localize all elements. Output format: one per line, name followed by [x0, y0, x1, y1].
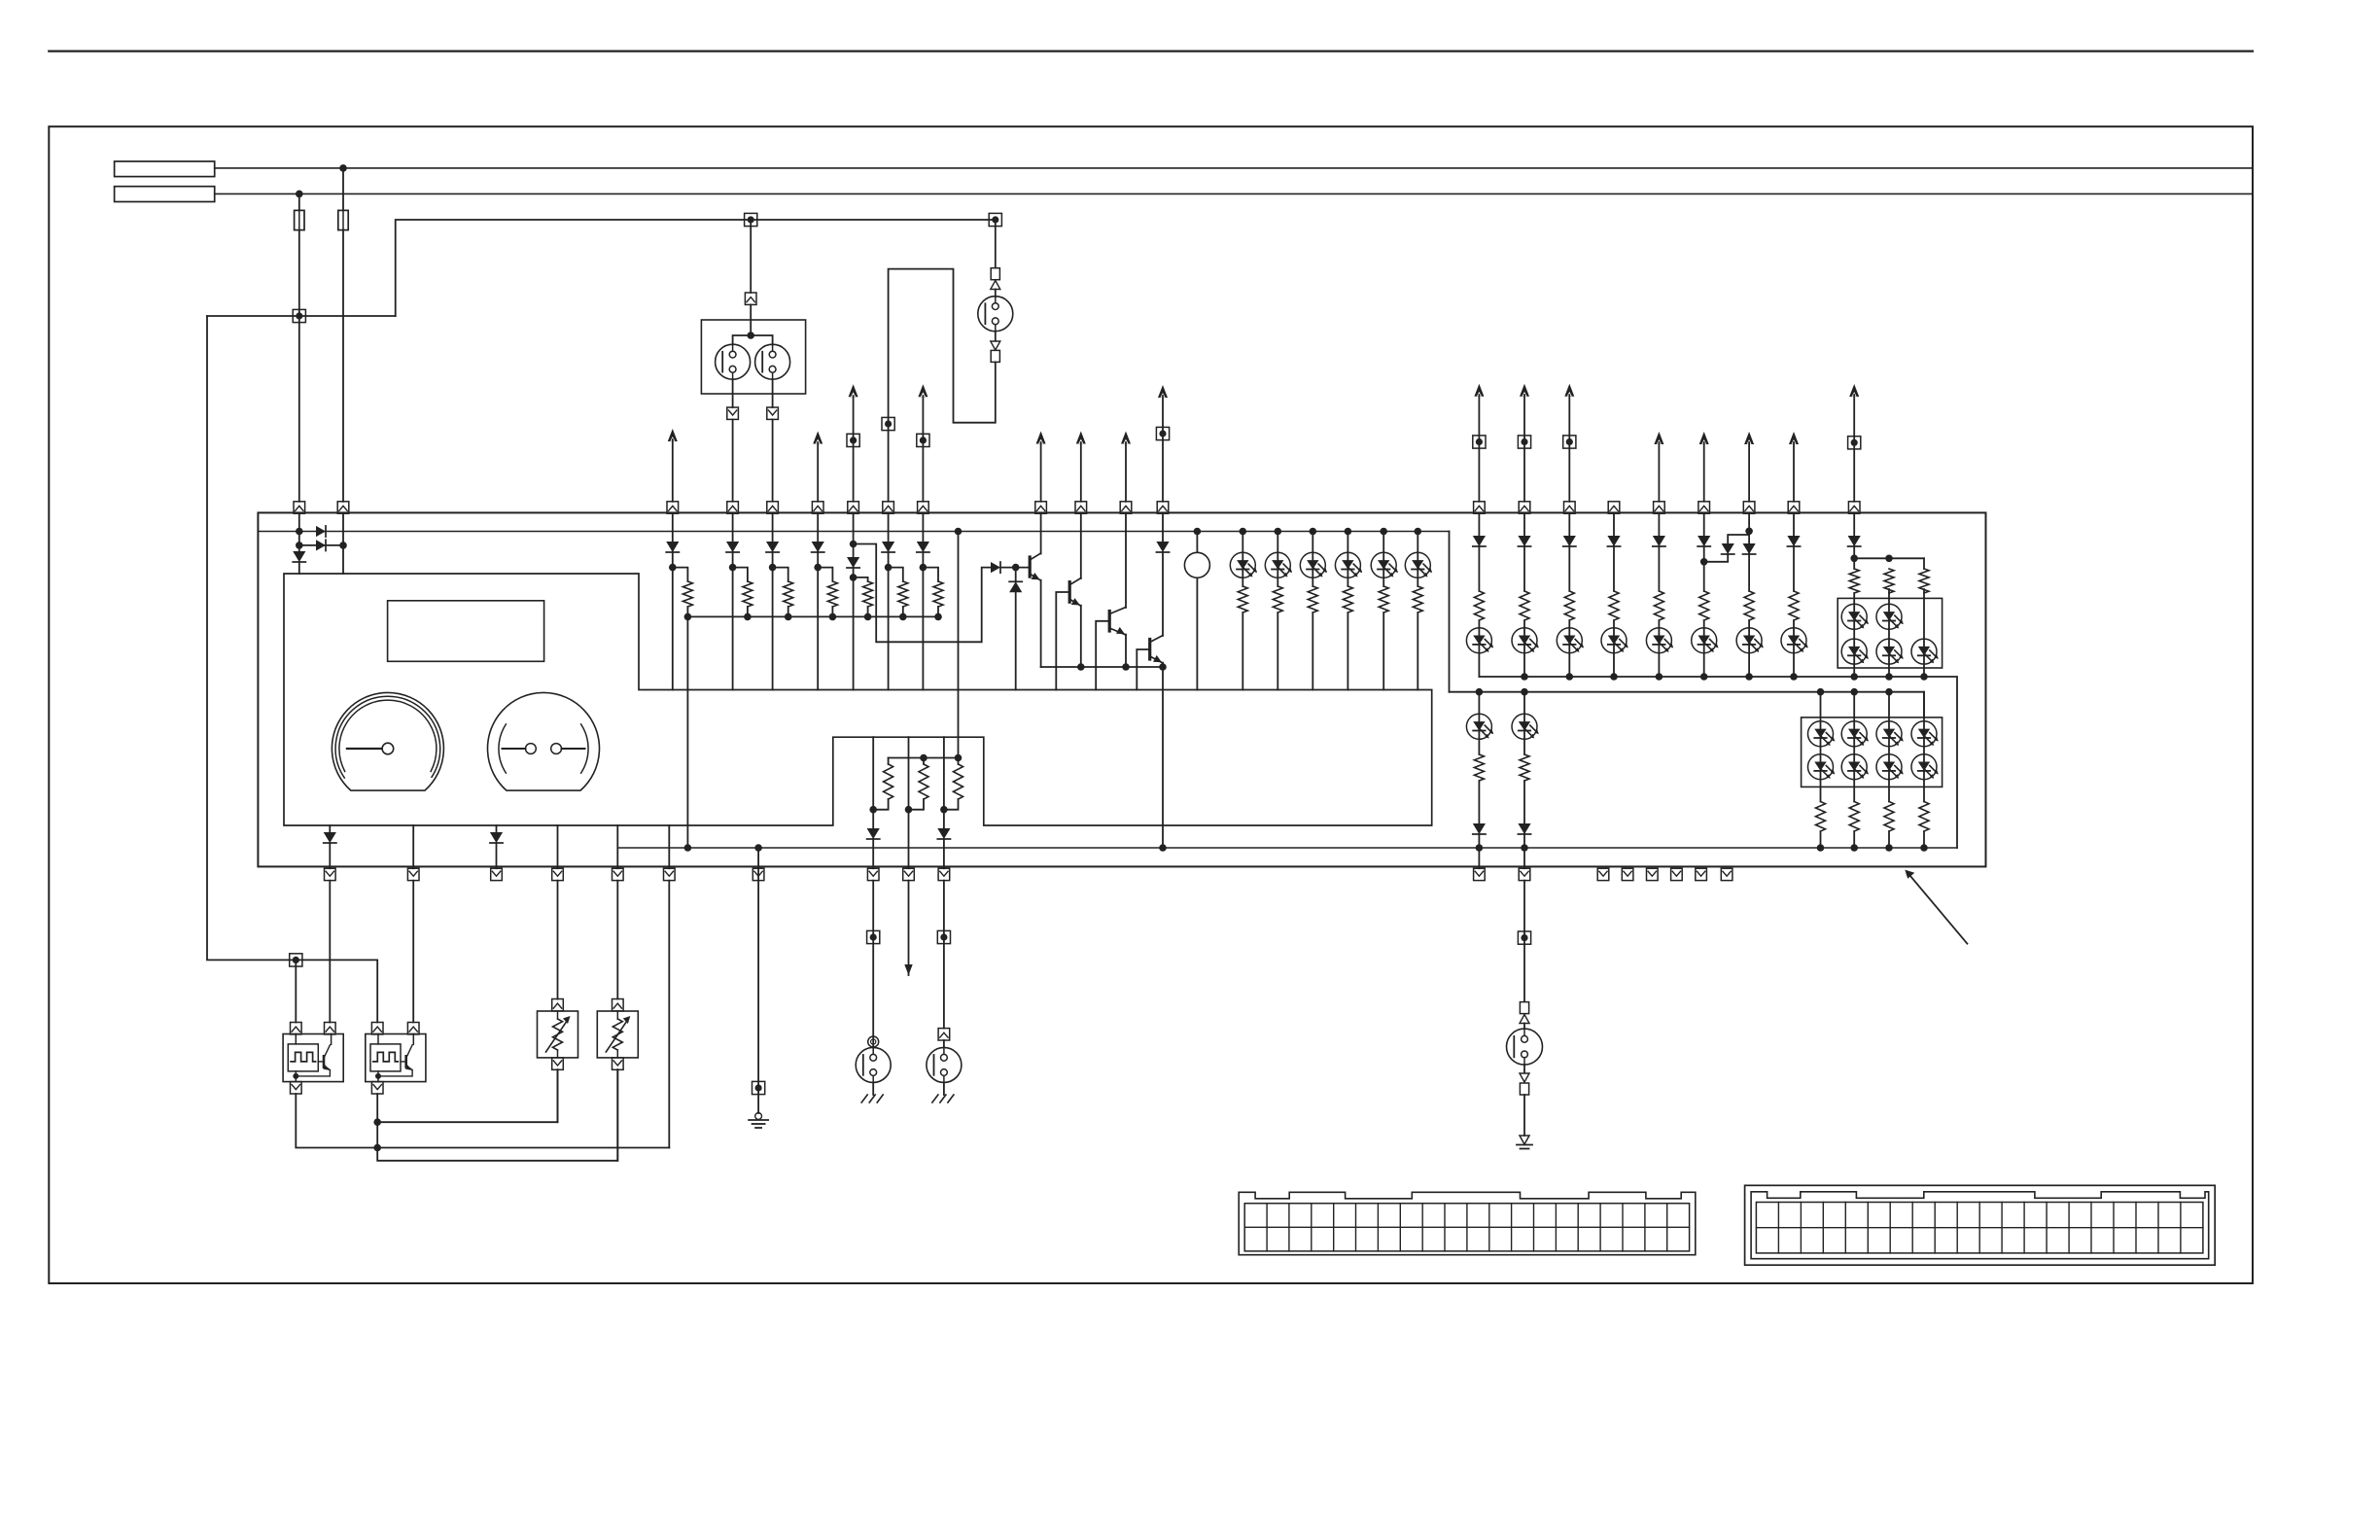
wire lamp1 return — [732, 379, 734, 407]
node resbus-7 — [934, 613, 942, 621]
LED D15 — [1265, 552, 1292, 577]
node blk2-3 — [1920, 844, 1928, 852]
pin connector B14 — [1622, 868, 1633, 880]
callout arrow — [1905, 870, 1967, 944]
resistor R25 — [1847, 569, 1861, 593]
resistor R23 — [1787, 591, 1801, 620]
ground G3 (chassis) — [932, 1095, 954, 1102]
node link-308 — [296, 542, 303, 549]
resistor R8 — [1236, 586, 1249, 612]
wire Q4 collector feed — [1162, 513, 1164, 542]
connector T16 — [1518, 931, 1530, 944]
wire twin diode out — [1704, 554, 1729, 562]
node busA-1753 — [1700, 673, 1708, 681]
LED D31 — [1466, 628, 1493, 653]
wire Q2 base — [1056, 592, 1069, 690]
resistor R32 — [1882, 802, 1896, 832]
node e-Q2 — [1077, 663, 1085, 671]
diode D26 — [1563, 536, 1576, 546]
node link-353 — [339, 542, 347, 549]
off-page arrow A15 — [1789, 432, 1799, 502]
pin connector B16 — [1671, 868, 1683, 880]
wire res link 1 — [673, 568, 688, 581]
wire rcol 1799 — [1748, 513, 1750, 677]
pin connector P17 — [1608, 502, 1620, 513]
pin connector P22 — [1848, 502, 1860, 513]
pin connector P5 — [767, 502, 779, 513]
resistor R27 — [1917, 558, 1931, 593]
wire bulb4 drop — [872, 881, 874, 1048]
diode D39 — [1743, 543, 1756, 554]
node busA-1907 — [1850, 673, 1858, 681]
node resbus-6 — [899, 613, 907, 621]
bulb L5 — [927, 1047, 962, 1082]
LED D40 — [1736, 628, 1764, 653]
wire drop 339 — [329, 825, 331, 832]
meter internal bus — [258, 531, 1449, 533]
resistor R2 — [741, 581, 754, 607]
connector TH1b — [552, 1058, 564, 1069]
node mid-1521 — [1476, 844, 1484, 852]
wire twin diode bracket — [1728, 535, 1749, 543]
contact arrow S2 — [991, 281, 1000, 290]
resistor R19 — [1562, 591, 1576, 620]
wire lamp1 to cluster — [732, 419, 734, 501]
wire column 4 — [817, 513, 819, 689]
LED D33 — [1557, 628, 1584, 653]
wire bulb5 lead — [943, 1040, 945, 1048]
wire illumination riser — [396, 220, 996, 316]
wire fuse2 out — [342, 230, 344, 502]
connector C5 — [745, 293, 756, 304]
node busB-1907 — [1850, 688, 1858, 696]
off-page arrow A10 — [1520, 384, 1529, 502]
LED D47 — [1466, 714, 1493, 739]
wire led col 5 — [1382, 532, 1384, 690]
off-page arrow A11 — [1564, 384, 1574, 502]
node Q1 base — [1012, 564, 1020, 572]
wire res tail 7 — [937, 607, 939, 616]
diode D21 — [937, 828, 950, 839]
off-page arrow A8 — [1158, 385, 1168, 502]
connector T11 — [1563, 436, 1576, 448]
node busA-1568 — [1521, 673, 1528, 681]
off-page arrow A2 — [813, 432, 822, 502]
resistor R17 — [1472, 591, 1486, 620]
wire res tail 1 — [686, 607, 688, 616]
wire rcol 1660 — [1613, 513, 1615, 677]
connector S2-425 — [407, 1023, 419, 1034]
pin connector B13 — [1597, 868, 1609, 880]
wire column 7 — [922, 513, 924, 689]
pin connector B9 — [903, 868, 915, 880]
wire bus to LED section — [1449, 532, 1451, 692]
wire column 2 — [732, 513, 734, 689]
wire Q1 emitter — [1040, 580, 1042, 667]
wire gauge col3 out — [943, 839, 945, 868]
node bump-985 — [955, 754, 962, 762]
terminal sleeve S1 — [991, 268, 999, 280]
pin connector B4 — [552, 868, 564, 880]
connector TH2b — [612, 1058, 624, 1069]
resistor R12 — [1377, 586, 1390, 612]
transistor Q1 — [1030, 553, 1040, 580]
diode D24 — [1473, 536, 1486, 546]
diode D13 — [1156, 542, 1169, 552]
connector T10 — [1518, 436, 1530, 448]
off-page arrow A5 — [1036, 432, 1046, 502]
gauge panel outline — [284, 574, 1432, 825]
resistor R33 — [1917, 802, 1931, 832]
speed sensor SS1 — [283, 1034, 343, 1082]
diode D28 — [1653, 536, 1665, 546]
transistor Q3 — [1109, 608, 1126, 636]
wire cluster return — [668, 881, 670, 1148]
pin connector B12 — [1519, 868, 1530, 880]
diode D6 — [766, 542, 779, 552]
diode D5 — [726, 542, 739, 552]
connector C8 — [938, 1029, 950, 1040]
resistor R9 — [1271, 586, 1284, 612]
pin connector P10 — [1035, 502, 1047, 513]
node mid-1568 — [1521, 844, 1528, 852]
wire Q4 collector — [1162, 552, 1164, 636]
pin connector B18 — [1721, 868, 1732, 880]
diagram border frame — [49, 126, 2253, 1283]
wire res link 4 — [818, 568, 832, 581]
wire illumination to sensors — [207, 316, 377, 1023]
wire blk2 col 1 — [1820, 692, 1822, 848]
pin connector B8 — [867, 868, 879, 880]
node ledrow-3 — [1310, 528, 1317, 536]
node gcol3 — [940, 806, 948, 814]
node busB-1521 — [1476, 688, 1484, 696]
wire column 6 — [888, 513, 890, 689]
LED D32 — [1512, 628, 1539, 653]
bulb L2 (illumination) — [755, 344, 790, 379]
wire res tail 4 — [831, 607, 833, 616]
node busA-1979 — [1920, 673, 1928, 681]
pin connector P18 — [1654, 502, 1665, 513]
wire led col 1 — [1242, 532, 1243, 690]
emitter bus — [1041, 666, 1163, 668]
LED D36 — [1692, 628, 1719, 653]
wire sensor1 sig — [329, 881, 331, 1023]
LED D56 — [1841, 754, 1869, 780]
wire bulb5 drop — [943, 881, 945, 1029]
wire Q4 emitter — [1162, 663, 1164, 848]
pin connector P16 — [1564, 502, 1576, 513]
resistor R1 — [681, 581, 694, 607]
resistor R14 — [873, 758, 894, 810]
LED D19 — [1405, 552, 1432, 577]
LED D43 — [1876, 604, 1904, 629]
node blk2-0 — [1817, 844, 1825, 852]
diode D30 — [1787, 536, 1800, 546]
pin connector P1 — [294, 502, 305, 513]
wire res tail 3 — [787, 607, 789, 616]
node busB-1568 — [1521, 688, 1528, 696]
connector T14 — [867, 930, 880, 943]
connector C7 — [767, 407, 779, 419]
contact arrow S3 — [991, 341, 1000, 350]
diode D7 — [812, 542, 824, 552]
wire drop 573 — [557, 825, 559, 868]
wire drop 339b — [329, 843, 331, 868]
resistor R5 — [861, 581, 875, 607]
contact arrow S6 — [1520, 1015, 1529, 1024]
ground G1 — [749, 1113, 768, 1128]
resistor R16 — [944, 758, 965, 810]
bulb L1 (illumination) — [716, 344, 751, 379]
terminal sleeve S4 — [991, 350, 999, 362]
node lamp box split — [747, 332, 754, 339]
node col5-a — [850, 541, 857, 548]
wire bulb6 lead — [1523, 1024, 1525, 1030]
node ledrow-5 — [1380, 528, 1387, 536]
wire fuse1 out — [298, 230, 300, 502]
LED D48 — [1512, 714, 1539, 739]
node busfeed-985 — [955, 528, 962, 536]
diode D22 — [324, 832, 336, 843]
LED D52 — [1841, 721, 1869, 747]
pin connector P2 — [337, 502, 349, 513]
node col3 — [769, 564, 777, 572]
resistor R31 — [1847, 802, 1861, 832]
off-page arrow A3 — [849, 384, 858, 502]
node ledrow-1 — [1240, 528, 1247, 536]
node bump-950 — [920, 754, 927, 762]
pin connector P11 — [1075, 502, 1087, 513]
diode D41 — [1848, 536, 1861, 546]
wire lamp2 return — [772, 379, 774, 407]
wire Q2 collector — [1080, 513, 1082, 578]
connector T2 — [745, 213, 757, 226]
wire led col 2 — [1277, 532, 1278, 690]
wire lamp1 branch — [733, 335, 773, 345]
off-page arrow A14 — [1744, 432, 1754, 502]
thermistor sender TH2 — [597, 1011, 638, 1058]
LED D18 — [1371, 552, 1398, 577]
diode D27 — [1607, 536, 1620, 546]
wire midled 1568 out — [1523, 848, 1525, 868]
node sens2-b — [373, 1144, 381, 1152]
pin connector B6 — [664, 868, 676, 880]
pin connector B10 — [938, 868, 950, 880]
LED return bus A — [1479, 677, 1957, 848]
wire res tail 5 — [867, 607, 869, 616]
wire res tail 2 — [747, 607, 749, 616]
resistor R4 — [825, 581, 839, 607]
pin connector B15 — [1647, 868, 1659, 880]
wire blk1 col2 — [1888, 589, 1890, 677]
node r1752 — [1700, 558, 1708, 566]
wire drop 510 — [496, 825, 498, 832]
wire column 5 — [853, 513, 855, 689]
gauge speedometer — [332, 692, 443, 790]
node rail-780 — [754, 844, 762, 852]
thermistor sender TH1 — [538, 1011, 578, 1058]
off-page arrow A16 — [1849, 384, 1859, 502]
wire rcol 1845 — [1793, 513, 1795, 677]
node resbus-3 — [785, 613, 792, 621]
zener D12 — [1009, 568, 1022, 593]
off-page arrow A9 — [1474, 384, 1484, 502]
LED D46 — [1911, 639, 1939, 664]
LED feed bus B — [1450, 692, 1925, 717]
node sens2-a — [373, 1118, 381, 1126]
pin connector P15 — [1519, 502, 1530, 513]
node resbus-2 — [744, 613, 752, 621]
wire 985 drop — [958, 532, 960, 758]
combination meter box — [258, 512, 1985, 866]
LED D58 — [1911, 754, 1939, 780]
wire res link 7 — [923, 568, 938, 581]
wire diode link — [299, 544, 343, 546]
pin connector B5 — [612, 868, 624, 880]
connector TH1a — [552, 999, 564, 1011]
LED D42 — [1841, 604, 1869, 629]
connector T3 — [989, 213, 1001, 226]
off-page arrow A7 — [1121, 432, 1131, 502]
node resbus-5 — [864, 613, 872, 621]
LED D17 — [1335, 552, 1362, 577]
connector T5 — [882, 417, 894, 430]
diode D49 — [1473, 823, 1486, 834]
LED block 2 box — [1802, 717, 1942, 787]
wire bump top — [889, 757, 959, 759]
diode D4 — [666, 542, 679, 552]
connector S2out — [371, 1082, 383, 1094]
transistor Q2 — [1069, 578, 1081, 607]
wire bulb3 return S-path — [889, 269, 996, 502]
node on bus 2 — [296, 191, 303, 198]
contact arrow S7 — [1520, 1073, 1529, 1082]
wire drop 688 — [668, 825, 670, 868]
wire fuse1 feed — [298, 193, 300, 210]
wire column 1 — [672, 513, 674, 689]
node col6 — [885, 564, 892, 572]
node ledrow-6 — [1415, 528, 1422, 536]
wire blk2 col 3 — [1888, 692, 1890, 848]
speed sensor SS2 — [366, 1034, 426, 1082]
connector T8 — [1156, 427, 1169, 439]
pin connector P3 — [667, 502, 679, 513]
wire bulb3 feed — [995, 220, 997, 268]
pin connector B2 — [407, 868, 419, 880]
node busA-1660 — [1610, 673, 1618, 681]
wire th2 feed — [616, 881, 618, 999]
wire drop 425 — [412, 825, 414, 868]
diode D25 — [1518, 536, 1530, 546]
wire res link 3 — [773, 568, 788, 581]
diode D1 (bus series) — [316, 526, 326, 537]
pin connector P8 — [883, 502, 894, 513]
node col2 — [729, 564, 737, 572]
connector T1 (illumination splice) — [293, 309, 305, 322]
LED D57 — [1876, 754, 1904, 780]
pin connector P21 — [1788, 502, 1800, 513]
wire drop 510b — [496, 843, 498, 868]
wire Q3 emitter — [1125, 635, 1127, 667]
resistor R29 — [1518, 754, 1531, 781]
wire rcol 1568 — [1523, 513, 1525, 677]
node resbus-4 — [829, 613, 837, 621]
pin connector P12 — [1120, 502, 1132, 513]
connector T6 — [847, 434, 859, 446]
resistor R22 — [1697, 591, 1711, 620]
LED D34 — [1601, 628, 1628, 653]
wire bulb5 gnd — [943, 1082, 945, 1095]
power source label box 2 — [115, 187, 215, 202]
wire gauge col1 — [872, 737, 874, 828]
bulb L6 — [1507, 1029, 1543, 1065]
resistor R15 — [909, 758, 931, 810]
bus wire 2 (BAT) — [215, 192, 2253, 194]
illumination lamp unit box — [701, 320, 805, 394]
pin connector P9 — [918, 502, 929, 513]
wire thermistor1 link — [377, 1069, 557, 1122]
resistor R21 — [1652, 591, 1665, 620]
diode D23 — [490, 832, 503, 843]
node resbus-1 — [684, 613, 692, 621]
node blk2-1 — [1850, 844, 1858, 852]
diode D11 (base) — [991, 562, 1000, 573]
meter ground rail — [617, 847, 1957, 849]
bulb L4 — [856, 1047, 891, 1082]
node col4 — [814, 564, 822, 572]
connector T7 — [917, 434, 929, 446]
pin connector P13 — [1157, 502, 1169, 513]
wire res link 6 — [889, 568, 903, 581]
gauge fuel-temp — [487, 692, 599, 790]
diode D29 — [1697, 536, 1710, 546]
node e-Q4 — [1159, 663, 1167, 671]
wire res link 5 — [854, 577, 868, 581]
pin connector B7 — [752, 868, 764, 880]
wire bulb6 drop — [1523, 881, 1525, 1002]
fuse F1 — [295, 210, 304, 229]
node ledrow-0 — [1194, 528, 1202, 536]
diode D50 — [1518, 823, 1530, 834]
LED D54 — [1911, 721, 1939, 747]
wire lamp2 to cluster — [772, 419, 774, 501]
wire res tail 6 — [902, 607, 904, 616]
wire bulb3 lead — [995, 290, 997, 297]
node blk1-1943 — [1885, 555, 1893, 563]
diode D9 — [882, 542, 894, 552]
node col7 — [920, 564, 927, 572]
node busA-1943 — [1885, 673, 1893, 681]
wire res link 2 — [733, 568, 748, 581]
connector T4 (sensor splice) — [290, 954, 302, 966]
diode D2 (link) — [316, 540, 326, 550]
connector S1-304 — [291, 1023, 302, 1034]
ground G2 (chassis) — [861, 1095, 883, 1102]
diode D8 — [847, 557, 859, 568]
wire midled 1568 — [1523, 692, 1525, 848]
wire rcol 1521 — [1478, 513, 1480, 677]
wire Q3 collector — [1125, 513, 1127, 608]
pin connector P7 — [848, 502, 859, 513]
connector T12 — [1848, 437, 1861, 449]
LED D37 — [1781, 628, 1808, 653]
resistor R3 — [782, 581, 795, 607]
LED D53 — [1876, 721, 1904, 747]
pin connector P6 — [812, 502, 823, 513]
node blk2-2 — [1885, 844, 1893, 852]
wire gauge col3 — [943, 737, 945, 828]
